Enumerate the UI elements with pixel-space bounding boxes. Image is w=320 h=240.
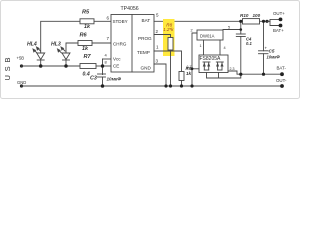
svg-text:BAT-: BAT- [277,66,287,71]
wire +5V rail [22,65,81,67]
pin numbers DW01A [191,25,231,50]
wire TEMP pin1 to R9 [154,51,182,72]
svg-text:4: 4 [105,53,108,58]
svg-text:TP4056: TP4056 [121,6,139,12]
wire PROG pin2 to R8 [154,35,171,38]
wire FS8205A left pins 6,7 [192,68,199,70]
svg-text:+: + [265,46,268,51]
svg-text:C3: C3 [90,76,97,82]
resistor R9 [179,72,184,81]
wire R6 to pin7 and HL3 top [66,43,78,53]
node +5V terminal [17,56,25,61]
svg-text:HL4: HL4 [27,42,37,48]
junction dot HL3 / +5V rail [64,64,68,68]
svg-text:GND: GND [17,80,26,85]
svg-text:USB: USB [3,58,12,81]
svg-text:8: 8 [105,60,108,65]
svg-text:R6: R6 [80,33,88,39]
svg-text:5: 5 [228,25,230,29]
IC U2 DW01A [197,30,223,40]
R8 yellow highlight [163,19,175,56]
resistor R8 [168,38,173,51]
svg-text:1: 1 [156,45,159,50]
svg-text:R10: R10 [240,13,249,18]
resistor R6 [78,41,92,46]
svg-text:5: 5 [156,13,159,18]
svg-text:OUT-: OUT- [276,78,287,83]
svg-text:FS8205A: FS8205A [200,56,222,62]
capacitor C3 [98,73,106,75]
LED HL4 [27,42,37,48]
svg-text:1k: 1k [84,24,91,30]
svg-text:BAT: BAT [142,18,151,23]
capacitor C4 [240,21,242,34]
svg-text:0.1: 0.1 [246,41,252,46]
wire FS8205A source bottoms [207,73,241,79]
svg-text:2: 2 [191,29,193,33]
svg-text:1.2*k: 1.2*k [163,27,174,32]
svg-text:CE: CE [113,64,119,69]
USB connector label [3,58,12,81]
resistor R5 [80,19,94,24]
IC U1 TP4056 box [121,6,139,12]
svg-text:100: 100 [253,13,261,18]
svg-text:1k: 1k [186,71,192,76]
wire GND pin3 down [154,64,166,86]
svg-text:10мкФ: 10мкФ [107,77,122,82]
svg-text:0.4: 0.4 [83,72,90,78]
wire R5 to pin6 and HL4 top [41,21,80,53]
border frame [1,1,300,99]
node GND terminal [17,80,26,85]
svg-text:R7: R7 [84,54,92,60]
node OUT+ / BAT+ fork [265,20,268,23]
mosfet Q1 [203,62,210,70]
svg-text:2,3: 2,3 [230,67,235,71]
capacitor C5 electrolytic [263,21,265,51]
svg-text:DW01A: DW01A [200,34,215,39]
svg-text:CHRG: CHRG [113,42,127,47]
svg-text:BAT+: BAT+ [273,28,284,33]
wire DW01A gate stubs [203,40,205,62]
resistor R7 [80,64,96,69]
svg-text:6: 6 [107,16,110,21]
svg-text:4: 4 [224,46,226,50]
svg-text:OUT+: OUT+ [273,11,285,16]
svg-text:STDBY: STDBY [113,19,128,24]
wire DW01A pin5 [223,29,241,31]
junction dot HL4 / +5V rail [39,64,43,68]
svg-text:TEMP: TEMP [137,50,150,55]
wire DW01A pin2 to OUT- rail [192,33,197,86]
node BAT+ terminal [279,24,283,28]
wire BAT pin5 to right [154,20,242,22]
svg-text:GND: GND [141,66,152,71]
svg-text:1: 1 [200,44,202,48]
node OUT+ terminal [279,18,283,22]
svg-text:6,7: 6,7 [187,65,192,69]
svg-text:7: 7 [107,36,110,41]
mosfet Q2 [216,62,223,70]
node OUT- terminal [280,84,284,88]
resistor R10 [240,13,261,18]
wire GND rail [22,85,283,87]
svg-text:10мкФ: 10мкФ [267,55,281,60]
node BAT- terminal [280,72,284,76]
LED HL3 [51,42,61,48]
wire Vcc/CE junction [103,58,112,60]
svg-text:Vcc: Vcc [113,57,121,62]
svg-text:1k: 1k [82,46,89,52]
svg-text:R5: R5 [82,10,90,16]
svg-text:C5: C5 [269,49,275,54]
svg-text:2: 2 [156,29,159,34]
svg-text:HL3: HL3 [51,42,61,48]
transistor pair FS8205A [199,55,228,73]
svg-text:PROG: PROG [138,36,152,41]
pin numbers TP4056 [107,13,160,64]
svg-text:3: 3 [156,59,159,64]
svg-text:+5В: +5В [17,56,25,61]
wire FS8205A right pins 2,3 to BAT- line [228,71,282,74]
